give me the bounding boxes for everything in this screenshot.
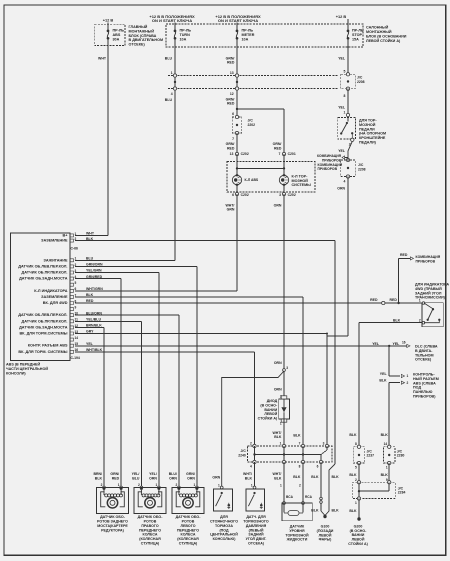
svg-text:BLU: BLU: [132, 476, 140, 480]
svg-text:2: 2: [419, 318, 421, 322]
svg-text:5: 5: [75, 281, 77, 285]
svg-text:1: 1: [118, 483, 120, 487]
svg-text:ЗАЗЕМЛЕНИЕ: ЗАЗЕМЛЕНИЕ: [41, 295, 68, 299]
J/C 2240 internal bus: [254, 446, 256, 462]
wire BLU/ORN ECU pin10 to left front sensor: [75, 314, 179, 316]
svg-text:2240: 2240: [238, 453, 246, 457]
wire RED from ECU pin 8 to 4WD switch: [75, 302, 423, 304]
svg-text:ДАТЧИК ОБ.ЗАДН.МОСТА: ДАТЧИК ОБ.ЗАДН.МОСТА: [19, 277, 68, 281]
svg-text:C202: C202: [288, 193, 296, 197]
svg-text:СТУПИЦА): СТУПИЦА): [141, 541, 160, 545]
svg-text:1: 1: [218, 483, 220, 487]
svg-text:8: 8: [344, 94, 346, 98]
svg-text:ПАНЕЛЬЮ: ПАНЕЛЬЮ: [413, 390, 433, 394]
svg-text:2202: 2202: [248, 123, 256, 127]
svg-text:СИСТЕМЫ: СИСТЕМЫ: [292, 183, 312, 187]
connector pins 1/4 on BLU wire: [173, 74, 176, 77]
svg-text:10A: 10A: [242, 38, 249, 42]
svg-text:ДАТЧИК ОБ.ПР.ПЕР.КОЛ.: ДАТЧИК ОБ.ПР.ПЕР.КОЛ.: [21, 271, 67, 275]
svg-text:WHT: WHT: [86, 232, 95, 236]
svg-text:КОНСОЛИ): КОНСОЛИ): [6, 372, 26, 376]
svg-text:ДЛЯ ИНДИКАТОРА: ДЛЯ ИНДИКАТОРА: [415, 283, 449, 287]
junction connector J/C 2202: [232, 117, 242, 133]
svg-text:ORN: ORN: [169, 476, 177, 480]
svg-text:YEL: YEL: [338, 149, 346, 153]
svg-text:ABS (В ПЕРЕДНЕЙ: ABS (В ПЕРЕДНЕЙ: [6, 363, 41, 367]
svg-text:2208: 2208: [357, 80, 365, 84]
ECU pin 13 (ВК. ДЛЯ ТОРМ.СИСТЕМЫ): [70, 332, 74, 335]
svg-text:BLK: BLK: [332, 509, 340, 513]
connector pin 13 C202 into cluster: [235, 152, 238, 155]
svg-text:BLK: BLK: [393, 318, 401, 322]
svg-text:ORN: ORN: [274, 204, 282, 208]
ABS control module box: [10, 233, 70, 361]
svg-text:RED: RED: [227, 61, 235, 65]
wire YEL/GRN ECU pin3 to right front sensor: [75, 272, 159, 274]
svg-text:ДАТЧИК ОБ.ПР.ПЕР.КОЛ.: ДАТЧИК ОБ.ПР.ПЕР.КОЛ.: [21, 319, 67, 323]
indicator lamp K-L brake system: [279, 175, 288, 184]
svg-text:RED: RED: [370, 298, 378, 302]
junction connector J/C 2208 lower: [346, 158, 349, 161]
svg-text:2: 2: [101, 483, 103, 487]
svg-text:ДАТЧИК ОБ.ЛЕВ.ПЕР.КОЛ.: ДАТЧИК ОБ.ЛЕВ.ПЕР.КОЛ.: [18, 313, 67, 317]
svg-text:2280: 2280: [397, 454, 405, 458]
fuse ПР-ЛЬ STOP 15A: [347, 19, 349, 31]
svg-text:ON И START КЛЮЧА: ON И START КЛЮЧА: [152, 18, 192, 23]
svg-text:СТОЙКИ А): СТОЙКИ А): [348, 542, 368, 546]
svg-text:RED: RED: [227, 146, 235, 150]
svg-text:BLK: BLK: [293, 475, 301, 479]
junction node RED branch: [397, 302, 399, 304]
svg-text:ПР-ЛЬ: ПР-ЛЬ: [113, 29, 125, 33]
wire ORN from J/C 2208 down: [347, 177, 349, 336]
svg-text:БЛОК (В ОСНОВАНИИ: БЛОК (В ОСНОВАНИИ: [366, 35, 407, 39]
svg-text:ЗАЖИГАНИЕ: ЗАЖИГАНИЕ: [44, 258, 68, 262]
svg-text:1: 1: [75, 232, 77, 236]
wire YEL branch to ABS check connector pin 1: [388, 346, 390, 376]
connector pin 6 C202 below cluster: [235, 192, 238, 195]
wire WHT/BLK to brake pressure switch: [254, 462, 256, 488]
svg-text:BLK: BLK: [311, 475, 319, 479]
svg-text:C-194: C-194: [71, 356, 80, 360]
svg-text:(ПОЗАДИ: (ПОЗАДИ: [317, 529, 334, 533]
ECU pin 16 (ВК. ДЛЯ ТОРМ. СИСТЕМЫ): [70, 350, 74, 353]
svg-text:ПР-ЛЬ: ПР-ЛЬ: [242, 29, 254, 33]
svg-text:12: 12: [230, 92, 234, 96]
wire YEL/BLU ECU pin11 to right front sensor: [75, 320, 141, 322]
wires into cluster: [236, 154, 238, 175]
svg-text:МОЗНОЙ: МОЗНОЙ: [359, 123, 376, 127]
svg-text:1: 1: [419, 299, 421, 303]
svg-text:BLK: BLK: [95, 476, 103, 480]
svg-text:ГЛАВНЫЙ: ГЛАВНЫЙ: [129, 25, 148, 29]
svg-text:ЖИДКОСТИ: ЖИДКОСТИ: [286, 538, 308, 542]
ECU pin 8 (ВК. ДЛЯ 4WD): [70, 302, 74, 305]
indicator lamp K-L ABS: [232, 175, 241, 184]
svg-text:(НА ОПОРНОМ: (НА ОПОРНОМ: [359, 132, 386, 136]
fuse ПР-ЛЬ ABS 30A: [107, 23, 109, 31]
wire GRN/ORN ECU pin2 to left front sensor: [75, 265, 197, 267]
svg-text:5: 5: [355, 465, 357, 469]
svg-text:САЛОННЫЙ: САЛОННЫЙ: [366, 26, 389, 30]
connector pin 3 C202 below cluster: [282, 192, 285, 195]
svg-text:2208: 2208: [358, 167, 366, 171]
wire YEL from ECU pin 15 to DLC: [75, 345, 407, 347]
wire BLK from J/C 2284 to ground G200: [358, 499, 360, 518]
svg-text:КОНТРОЛЬ-: КОНТРОЛЬ-: [413, 373, 435, 377]
svg-text:STOP: STOP: [352, 33, 363, 37]
svg-text:ABS: ABS: [113, 33, 121, 37]
ECU pin 11 (ДАТЧИК ОБ.ПР.ПЕР.КОЛ.): [70, 320, 74, 323]
svg-text:YEL: YEL: [393, 342, 401, 346]
svg-text:ДЛЯ ТОР-: ДЛЯ ТОР-: [359, 119, 377, 123]
svg-text:YEL: YEL: [338, 106, 346, 110]
svg-text:BLK: BLK: [274, 476, 282, 480]
svg-text:КОНТР. РАЗЪЕМ ABS: КОНТР. РАЗЪЕМ ABS: [28, 344, 68, 348]
svg-text:1: 1: [194, 483, 196, 487]
svg-text:ЛЕВОЙ: ЛЕВОЙ: [319, 533, 332, 537]
connector pins 13/12 on GRN/RED wire: [235, 74, 238, 77]
wire BLK from ECU pin 2 to ground G100: [75, 240, 335, 242]
connector pin 7 C201 into cluster: [282, 152, 285, 155]
svg-text:2237: 2237: [367, 454, 375, 458]
ECU pin 15 (КОНТР. РАЗЪЕМ ABS): [70, 344, 74, 347]
ground G100: [323, 515, 326, 518]
svg-text:8: 8: [299, 465, 301, 469]
svg-text:ПР-ЛЬ: ПР-ЛЬ: [180, 29, 192, 33]
svg-text:GRN: GRN: [227, 208, 235, 212]
svg-text:1: 1: [280, 422, 282, 426]
svg-text:C201: C201: [288, 152, 296, 156]
svg-text:ВК. ДЛЯ 4WD: ВК. ДЛЯ 4WD: [43, 301, 68, 305]
main fuse box dashed enclosure: [95, 24, 125, 45]
svg-text:RED: RED: [400, 253, 408, 257]
ECU pin 3 (ДАТЧИК ОБ.ПР.ПЕР.КОЛ.): [70, 271, 74, 274]
svg-text:BLU: BLU: [165, 98, 173, 102]
svg-text:30A: 30A: [113, 38, 120, 42]
svg-text:ON И START КЛЮЧА: ON И START КЛЮЧА: [218, 18, 258, 23]
wire branch GRN/RED to right lamp column: [237, 108, 284, 110]
svg-text:ABS (СЛЕВА: ABS (СЛЕВА: [413, 381, 436, 385]
svg-text:ЗАЗЕМЛЕНИЕ: ЗАЗЕМЛЕНИЕ: [41, 239, 68, 243]
svg-text:RED: RED: [274, 146, 282, 150]
svg-text:ЛЕВОЙ СТОЙКИ А): ЛЕВОЙ СТОЙКИ А): [366, 39, 401, 43]
svg-text:BLK: BLK: [349, 509, 357, 513]
wire RED branch up to instrument cluster arrow: [398, 258, 400, 303]
svg-text:4: 4: [171, 92, 173, 96]
svg-text:7: 7: [299, 441, 301, 445]
svg-text:2: 2: [355, 478, 357, 482]
svg-text:ORN: ORN: [187, 476, 195, 480]
svg-text:КОМБИНАЦИЯ: КОМБИНАЦИЯ: [416, 255, 441, 259]
svg-text:БЛОК (СПРАВА: БЛОК (СПРАВА: [129, 34, 157, 38]
ECU pin 10 (ДАТЧИК ОБ.ЛЕВ.ПЕР.КОЛ.): [70, 314, 74, 317]
fuse ПР-ЛЬ METER 10A: [236, 23, 238, 31]
svg-text:6: 6: [232, 112, 234, 116]
wire BRN/BLK ECU pin12 to rear sensor: [75, 326, 104, 328]
svg-text:К-Л ТОР-: К-Л ТОР-: [292, 174, 309, 178]
wire BLK to fluid level sensor right: [302, 462, 304, 503]
ECU pin 9 (nc): [70, 308, 74, 311]
wire ORN branch to parking brake switch: [222, 371, 284, 488]
svg-text:BLK: BLK: [245, 476, 253, 480]
svg-text:ДАТЧИК ОБ.ЛЕВ.ПЕР.КОЛ.: ДАТЧИК ОБ.ЛЕВ.ПЕР.КОЛ.: [18, 264, 67, 268]
svg-text:1: 1: [280, 441, 282, 445]
svg-text:14: 14: [384, 442, 388, 446]
svg-text:НЫЙ РАЗЪЕМ: НЫЙ РАЗЪЕМ: [413, 377, 439, 381]
wire GRN/RED ECU pin4 to rear sensor: [75, 278, 121, 280]
svg-text:МОНТАЖНЫЙ: МОНТАЖНЫЙ: [366, 30, 392, 34]
svg-text:ДАТЧИК: ДАТЧИК: [290, 525, 305, 529]
wire ORN corner to ECU pin 13 line: [327, 335, 348, 337]
inline connector on RED wire: [382, 301, 385, 304]
svg-text:ORN: ORN: [212, 476, 220, 480]
svg-text:RCA: RCA: [305, 495, 313, 499]
svg-text:1: 1: [344, 110, 346, 114]
svg-text:УРОВНЯ: УРОВНЯ: [289, 529, 305, 533]
svg-text:ORN: ORN: [274, 387, 282, 391]
svg-text:ОТСЕКА): ОТСЕКА): [248, 541, 265, 545]
svg-text:BLU: BLU: [165, 57, 173, 61]
svg-text:СТОЙКИ А): СТОЙКИ А): [258, 416, 278, 420]
svg-text:3: 3: [279, 193, 281, 197]
svg-text:2: 2: [176, 483, 178, 487]
svg-text:ВК. ДЛЯ ТОРМ. СИСТЕМЫ: ВК. ДЛЯ ТОРМ. СИСТЕМЫ: [18, 350, 67, 354]
svg-text:2: 2: [407, 381, 409, 385]
wire WHT/BLK from diode to J/C 2240: [283, 419, 285, 446]
svg-text:1: 1: [407, 374, 409, 378]
svg-text:16: 16: [402, 340, 406, 344]
svg-text:ПРИБОРОВ: ПРИБОРОВ: [416, 260, 436, 264]
svg-text:К-Л ИНДИКАТОРА: К-Л ИНДИКАТОРА: [34, 289, 67, 293]
junction node on GRN/RED wire: [236, 108, 238, 110]
svg-text:ОТСЕКЕ): ОТСЕКЕ): [415, 358, 432, 362]
svg-text:2284: 2284: [398, 491, 406, 495]
wire WHT/BLK from ECU pin 16 to brake pressure switch: [75, 351, 255, 353]
svg-text:ПР-ЛЬ: ПР-ЛЬ: [352, 29, 364, 33]
svg-text:7: 7: [232, 137, 234, 141]
svg-text:4: 4: [344, 179, 346, 183]
svg-text:14: 14: [75, 336, 79, 340]
svg-text:7: 7: [279, 152, 281, 156]
svg-text:1: 1: [171, 71, 173, 75]
ECU pin 1 (В+): [70, 234, 74, 237]
wire GRY from ECU pin 13 brake system switch circuit: [75, 333, 327, 335]
svg-text:10A: 10A: [180, 38, 187, 42]
svg-text:1: 1: [386, 465, 388, 469]
ground G200: [357, 517, 360, 520]
wire BLK from 4WD switch to ground via J/C 2237: [359, 322, 422, 324]
svg-text:G100: G100: [321, 525, 330, 529]
svg-text:C202: C202: [241, 193, 249, 197]
svg-text:13: 13: [230, 71, 234, 75]
svg-text:8: 8: [355, 442, 357, 446]
cabin fuse box dashed enclosure: [166, 24, 363, 47]
svg-text:YEL: YEL: [86, 342, 94, 346]
ECU pin 4 (ДАТЧИК ОБ.ЗАДН.МОСТА): [70, 277, 74, 280]
svg-text:ORN: ORN: [274, 361, 282, 365]
svg-text:+12 В: +12 В: [336, 14, 347, 19]
wire BLU horizontal to ECU pin 1 C-194: [75, 259, 175, 261]
svg-text:КОНСОЛЬЮ): КОНСОЛЬЮ): [213, 537, 237, 541]
svg-text:WHT: WHT: [98, 57, 107, 61]
svg-text:КРОНШТЕЙНЕ: КРОНШТЕЙНЕ: [359, 136, 386, 140]
svg-text:RED: RED: [112, 476, 120, 480]
svg-text:2: 2: [138, 483, 140, 487]
svg-text:9: 9: [75, 306, 77, 310]
svg-text:5: 5: [344, 69, 346, 73]
svg-text:BLK: BLK: [293, 434, 301, 438]
svg-text:ФАРЫ): ФАРЫ): [319, 538, 332, 542]
svg-text:ПРИБОРОВ: ПРИБОРОВ: [322, 158, 342, 162]
svg-text:15A: 15A: [352, 38, 359, 42]
svg-text:КОМБИНАЦИЯ: КОМБИНАЦИЯ: [318, 163, 343, 167]
branch arrow to instrument cluster: [345, 157, 349, 159]
svg-text:ПЕДАЛИ: ПЕДАЛИ: [359, 127, 375, 131]
svg-text:ТЕЛЬНОМ: ТЕЛЬНОМ: [415, 353, 434, 357]
svg-text:BLU: BLU: [86, 257, 94, 261]
svg-text:BLK: BLK: [379, 379, 387, 383]
svg-text:13: 13: [230, 152, 234, 156]
ECU pin 5 (nc): [70, 283, 74, 286]
cluster internal bus wire: [237, 167, 284, 169]
svg-text:2: 2: [299, 483, 301, 487]
svg-text:+12 В: +12 В: [103, 18, 114, 23]
svg-text:ЗАДНИЙ УГОЛ: ЗАДНИЙ УГОЛ: [415, 291, 442, 295]
svg-text:ORN: ORN: [149, 476, 157, 480]
svg-text:ПРИБОРОВ): ПРИБОРОВ): [413, 395, 436, 399]
ECU pin 2 (ЗАЗЕМЛЕНИЕ): [70, 239, 74, 242]
svg-text:6: 6: [232, 193, 234, 197]
svg-text:РЕДУКТОРА): РЕДУКТОРА): [101, 528, 124, 532]
svg-text:4: 4: [250, 465, 252, 469]
svg-text:BLK: BLK: [381, 433, 389, 437]
svg-text:ЧАСТИ ЦЕНТРАЛЬНОЙ: ЧАСТИ ЦЕНТРАЛЬНОЙ: [6, 367, 48, 371]
svg-text:1: 1: [355, 501, 357, 505]
instrument cluster dashed enclosure: [227, 162, 315, 193]
svg-text:ДАТЧИК ОБ.ЗАДН.МОСТА: ДАТЧИК ОБ.ЗАДН.МОСТА: [19, 325, 68, 329]
svg-text:В ДВИГАТЕЛЬНОМ: В ДВИГАТЕЛЬНОМ: [129, 38, 164, 42]
svg-text:YEL: YEL: [372, 342, 380, 346]
svg-text:4WD (ПРАВЫЙ: 4WD (ПРАВЫЙ: [415, 287, 442, 291]
svg-text:МОЗНОЙ: МОЗНОЙ: [292, 179, 309, 183]
ECU pin 14 (nc): [70, 338, 74, 341]
wire BLK from J/C 2240 to ground G100: [320, 462, 322, 511]
ECU pin 7 (ЗАЗЕМЛЕНИЕ): [70, 295, 74, 298]
svg-text:СТУПИЦА): СТУПИЦА): [179, 541, 198, 545]
svg-text:6: 6: [317, 465, 319, 469]
fuse ПР-ЛЬ TURN 10A: [174, 23, 176, 31]
wires out of cluster lamps: [236, 185, 238, 194]
svg-text:3: 3: [286, 366, 288, 370]
svg-text:ПОД: ПОД: [413, 386, 421, 390]
svg-text:1: 1: [156, 483, 158, 487]
svg-text:WHT/GRN: WHT/GRN: [86, 287, 103, 291]
svg-text:BLK: BLK: [381, 473, 389, 477]
svg-text:TURN: TURN: [180, 33, 191, 37]
svg-text:3: 3: [323, 441, 325, 445]
wire BLK from ABS check connector pin 2 to ground: [389, 382, 400, 384]
svg-text:RED: RED: [390, 298, 398, 302]
harness connector dashed boundary lines: [168, 75, 338, 77]
svg-text:ТОРМОЗНОЙ: ТОРМОЗНОЙ: [285, 533, 309, 537]
svg-text:1: 1: [251, 483, 253, 487]
svg-text:1: 1: [280, 483, 282, 487]
svg-text:В+: В+: [63, 233, 69, 237]
svg-text:RED: RED: [227, 102, 235, 106]
svg-text:6: 6: [75, 287, 77, 291]
svg-text:1: 1: [75, 257, 77, 261]
svg-text:YEL: YEL: [338, 57, 346, 61]
svg-text:BLK: BLK: [349, 473, 357, 477]
svg-text:C-66: C-66: [71, 246, 78, 250]
svg-text:ПРИБОРОВ: ПРИБОРОВ: [318, 167, 338, 171]
svg-text:К-Л ABS: К-Л ABS: [245, 178, 259, 182]
wire ORN to diode: [283, 371, 285, 399]
svg-text:C202: C202: [241, 152, 249, 156]
svg-text:YEL: YEL: [380, 372, 388, 376]
svg-text:МОНТАЖНЫЙ: МОНТАЖНЫЙ: [129, 29, 155, 33]
wire WHT/BLK to fluid level sensor left: [283, 462, 285, 503]
switch for 4WD indicator box: [422, 303, 443, 327]
svg-text:BCA: BCA: [286, 495, 294, 499]
svg-text:BLK: BLK: [349, 433, 357, 437]
ECU pin 6 (К-Л ИНДИКАТОРА): [70, 289, 74, 292]
inline connector on G100 left wire: [320, 497, 323, 500]
svg-text:ОТСЕКЕ): ОТСЕКЕ): [129, 43, 146, 47]
svg-text:ВК. ДЛЯ ТОРМ.СИСТЕМЫ: ВК. ДЛЯ ТОРМ.СИСТЕМЫ: [19, 332, 67, 336]
svg-text:METER: METER: [242, 33, 255, 37]
svg-text:BLK: BLK: [274, 435, 282, 439]
svg-text:DLC (СЛЕВА: DLC (СЛЕВА: [415, 345, 438, 349]
ECU pin 2 (ДАТЧИК ОБ.ЛЕВ.ПЕР.КОЛ.): [70, 265, 74, 268]
svg-text:ORN: ORN: [337, 186, 345, 190]
svg-text:2: 2: [250, 441, 252, 445]
svg-text:ПЕДАЛИ): ПЕДАЛИ): [359, 141, 377, 145]
svg-text:BLK: BLK: [332, 475, 340, 479]
ECU pin 1 (ЗАЖИГАНИЕ): [70, 259, 74, 262]
wire BLK from ECU pin 7 to J/C 2240: [75, 296, 303, 298]
junction node YEL branch: [388, 345, 390, 347]
svg-text:В ДВИГА-: В ДВИГА-: [415, 349, 433, 353]
ECU pin 12 (ДАТЧИК ОБ.ЗАДН.МОСТА): [70, 326, 74, 329]
